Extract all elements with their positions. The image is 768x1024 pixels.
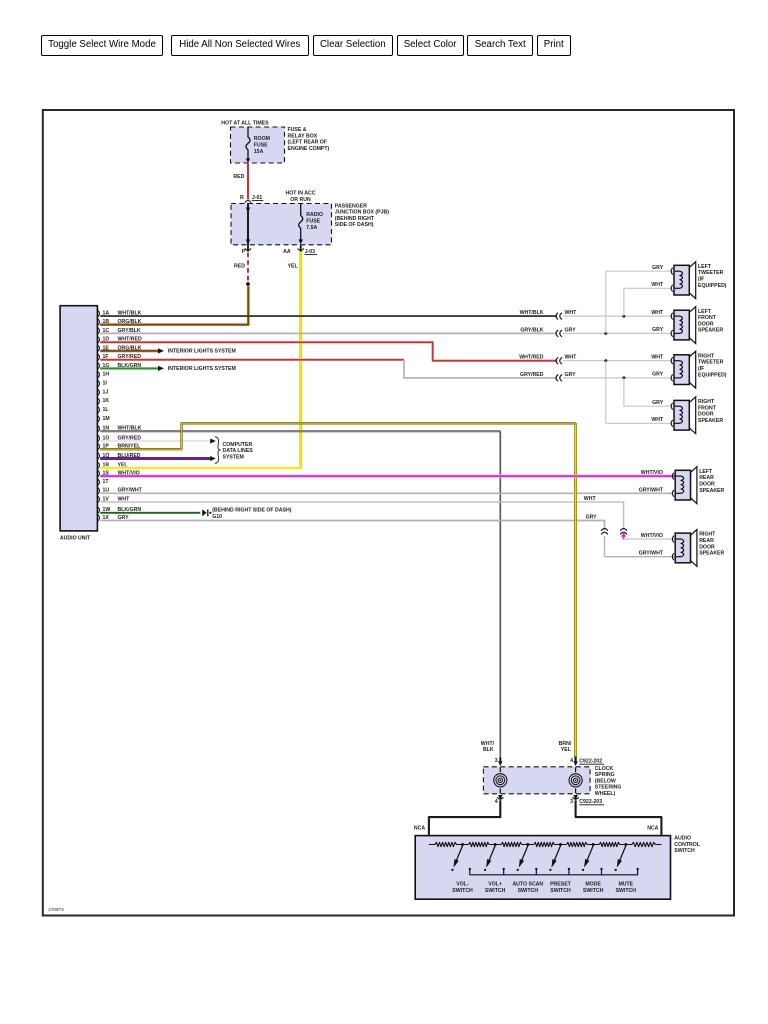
toolbar button Print xyxy=(537,35,572,56)
node GRY right xyxy=(622,376,625,379)
svg-text:SWITCH: SWITCH xyxy=(616,888,637,894)
svg-text:GRY: GRY xyxy=(652,265,664,271)
svg-text:DOOR: DOOR xyxy=(698,412,714,418)
svg-text:RIGHT: RIGHT xyxy=(699,532,716,538)
wire 1R YEL to AA vertical xyxy=(100,466,301,469)
svg-text:FUSE: FUSE xyxy=(254,143,268,149)
svg-text:(LEFT REAR OF: (LEFT REAR OF xyxy=(288,140,327,146)
connector arc at pin P xyxy=(245,248,251,250)
wire 1V WHT to connector xyxy=(100,502,623,530)
svg-text:CLOCK: CLOCK xyxy=(595,766,614,772)
svg-text:NCA: NCA xyxy=(647,825,658,831)
arrow WHT/VIO into connector xyxy=(623,536,625,540)
wire 1E ORG/BLK to interior lights xyxy=(100,349,158,352)
svg-text:HOT AT ALL TIMES: HOT AT ALL TIMES xyxy=(221,121,269,127)
svg-text:DOOR: DOOR xyxy=(699,544,715,550)
svg-text:1M: 1M xyxy=(103,416,110,422)
svg-text:SPEAKER: SPEAKER xyxy=(698,328,723,334)
node GRY left xyxy=(604,332,607,335)
svg-text:STEERING: STEERING xyxy=(595,785,622,791)
svg-text:AUTO SCAN: AUTO SCAN xyxy=(512,881,543,887)
svg-text:WHT: WHT xyxy=(651,355,664,361)
fuse & relay box (dashed) xyxy=(231,127,285,163)
svg-text:YEL: YEL xyxy=(561,747,572,753)
svg-text:SPEAKER: SPEAKER xyxy=(699,488,724,494)
svg-text:R: R xyxy=(240,195,244,201)
wire 1Q BLU/RED to computer data lines xyxy=(100,457,210,460)
svg-text:WHT: WHT xyxy=(651,417,664,423)
svg-text:AUDIO UNIT: AUDIO UNIT xyxy=(60,536,91,542)
svg-text:SWITCH: SWITCH xyxy=(518,888,539,894)
svg-text:ORG/BLK: ORG/BLK xyxy=(118,319,142,325)
wire 1A WHT/BLK to connector xyxy=(100,315,557,317)
junction node red/orange xyxy=(246,282,250,286)
svg-text:WHT/VIO: WHT/VIO xyxy=(641,470,663,476)
svg-text:(IF: (IF xyxy=(698,277,704,283)
svg-text:TWEETER: TWEETER xyxy=(698,270,724,276)
svg-text:ROOM: ROOM xyxy=(254,136,270,142)
svg-text:GRY/RED: GRY/RED xyxy=(520,372,544,378)
svg-text:NCA: NCA xyxy=(414,825,425,831)
switch blades and contacts xyxy=(456,846,463,863)
svg-text:SWITCH: SWITCH xyxy=(674,848,695,854)
svg-text:(IF: (IF xyxy=(698,366,704,372)
svg-text:LEFT: LEFT xyxy=(699,469,713,475)
svg-text:INTERIOR LIGHTS SYSTEM: INTERIOR LIGHTS SYSTEM xyxy=(168,366,236,372)
svg-text:WHEEL): WHEEL) xyxy=(595,791,616,797)
svg-text:PRESET: PRESET xyxy=(550,881,572,887)
connector on 1F wire xyxy=(556,375,558,382)
wire WHT down to right front door speaker xyxy=(606,361,672,424)
svg-text:WHT: WHT xyxy=(584,496,597,502)
arrow into clock spring pin 3 xyxy=(499,758,501,762)
svg-text:4: 4 xyxy=(570,758,573,764)
svg-text:MODE: MODE xyxy=(585,881,601,887)
wire 1C GRY/BLK to connector xyxy=(100,332,557,334)
svg-text:C922-203: C922-203 xyxy=(579,799,602,805)
svg-text:3: 3 xyxy=(570,799,573,805)
svg-text:VOL+: VOL+ xyxy=(488,881,502,887)
speaker right tweeter xyxy=(689,351,695,388)
svg-text:SWITCH: SWITCH xyxy=(485,888,506,894)
svg-text:SYSTEM: SYSTEM xyxy=(223,455,244,461)
resistor chain xyxy=(429,842,463,846)
svg-text:G10: G10 xyxy=(212,514,222,520)
audio unit box xyxy=(60,306,97,531)
svg-text:REAR: REAR xyxy=(699,538,714,544)
svg-text:4: 4 xyxy=(495,799,498,805)
connector on 1C wire xyxy=(556,330,558,337)
wire 1U GRY/WHT to left rear door speaker xyxy=(100,492,672,494)
audio unit pins 1A-1X xyxy=(98,310,100,316)
wire 1S WHT/VIO over yellow xyxy=(570,475,582,478)
speaker left tweeter xyxy=(689,262,695,299)
arrow into clock spring pin 4 xyxy=(574,757,576,762)
svg-text:GRY/BLK: GRY/BLK xyxy=(520,327,543,333)
svg-text:VOL-: VOL- xyxy=(456,881,469,887)
connector GRY to GRY/WHT xyxy=(601,529,608,531)
wire GRY up to left tweeter xyxy=(606,271,672,333)
svg-text:MUTE: MUTE xyxy=(618,881,633,887)
ground G10 xyxy=(202,509,206,516)
wire 1O GRY/RED to computer data lines xyxy=(100,440,210,442)
brace computer data lines system xyxy=(215,437,221,464)
svg-text:LEFT: LEFT xyxy=(698,264,712,270)
toolbar button Hide All Non Selected Wires xyxy=(171,35,309,56)
wire RED dashed PJB to junction xyxy=(247,245,249,252)
fuse F ROOM FUSE 15A xyxy=(246,128,250,160)
svg-text:WHT/RED: WHT/RED xyxy=(519,355,543,361)
speaker left rear door xyxy=(691,467,697,504)
svg-text:SIDE OF DASH): SIDE OF DASH) xyxy=(335,222,374,228)
wire GRY down to right front door speaker xyxy=(624,378,672,406)
wire ORG/BLK junction to pin 1B xyxy=(100,286,248,325)
svg-text:WHT/VIO: WHT/VIO xyxy=(641,533,663,539)
wire pin R to pin P inside PJB xyxy=(247,204,249,245)
svg-text:RELAY BOX: RELAY BOX xyxy=(288,133,318,139)
wire GRY to left front door speaker xyxy=(563,332,672,334)
wire WHT up to left tweeter xyxy=(624,288,672,316)
connector arc clock spring pin 4 bottom xyxy=(497,797,503,799)
svg-text:1H: 1H xyxy=(103,372,110,378)
node WHT left xyxy=(622,315,625,318)
arrow out clock spring pin 3 xyxy=(573,795,577,800)
arrow out clock spring pin 4 xyxy=(498,795,502,800)
svg-text:DATA LINES: DATA LINES xyxy=(223,448,254,454)
connector arc clock spring pin 3 bottom xyxy=(573,797,579,799)
svg-text:GRY: GRY xyxy=(565,327,577,333)
svg-text:SPRING: SPRING xyxy=(595,772,615,778)
svg-text:LEFT: LEFT xyxy=(698,309,712,315)
svg-text:1B: 1B xyxy=(103,319,110,325)
wire RED J-01 to PJB xyxy=(247,202,249,205)
svg-text:AA: AA xyxy=(283,249,291,255)
svg-text:1I: 1I xyxy=(103,381,108,387)
wire 1W BLK/GRN to ground xyxy=(100,512,200,514)
svg-text:ENGINE COMPT): ENGINE COMPT) xyxy=(288,146,330,152)
wire BRN/YEL down to clock spring xyxy=(574,423,577,757)
passenger junction box (dashed) xyxy=(231,204,332,245)
svg-text:TWEETER: TWEETER xyxy=(698,360,724,366)
connector on 1A wire xyxy=(556,313,558,320)
svg-text:SWITCH: SWITCH xyxy=(452,888,473,894)
svg-text:EQUIPPED): EQUIPPED) xyxy=(698,372,727,378)
svg-text:1L: 1L xyxy=(103,407,110,413)
svg-text:GRY: GRY xyxy=(652,327,664,333)
svg-text:REAR: REAR xyxy=(699,475,714,481)
svg-text:HOT IN ACC: HOT IN ACC xyxy=(285,191,315,197)
svg-text:270973: 270973 xyxy=(48,907,64,912)
speaker right rear door xyxy=(691,530,697,567)
speaker right front door xyxy=(689,397,695,434)
connector on 1D wire xyxy=(556,357,558,364)
connector WHT to WHT/VIO xyxy=(620,529,627,531)
clock spring coil left xyxy=(498,778,502,782)
diagram outer border xyxy=(43,110,734,916)
svg-text:RED: RED xyxy=(234,263,245,269)
svg-text:BLK: BLK xyxy=(483,747,494,753)
wire 1F GRY/RED to jog xyxy=(100,358,404,361)
svg-text:RIGHT: RIGHT xyxy=(698,353,715,359)
clock spring box (dashed) xyxy=(483,767,590,794)
wire WHT/VIO to right rear door speaker xyxy=(624,538,676,540)
wire 1S WHT/VIO to left rear door speaker xyxy=(100,475,675,478)
switch contact bus xyxy=(470,870,638,875)
svg-text:JUNCTION BOX (PJB): JUNCTION BOX (PJB) xyxy=(335,210,389,216)
svg-text:1J: 1J xyxy=(103,389,109,395)
svg-text:WHT/: WHT/ xyxy=(481,741,495,747)
wire WHT to left front door speaker xyxy=(563,315,672,317)
svg-text:PASSENGER: PASSENGER xyxy=(335,203,367,209)
fuse RADIO FUSE 7.5A xyxy=(299,204,303,241)
svg-text:WHT: WHT xyxy=(651,310,664,316)
audio control switch box xyxy=(415,836,670,900)
clock spring coil right xyxy=(573,778,577,782)
svg-text:(BELOW: (BELOW xyxy=(595,778,616,784)
svg-text:1T: 1T xyxy=(103,479,110,485)
svg-text:GRY: GRY xyxy=(586,515,598,521)
wire 1X GRY to connector xyxy=(100,521,604,530)
svg-text:DOOR: DOOR xyxy=(699,482,715,488)
svg-text:RED: RED xyxy=(233,174,244,180)
svg-text:OR RUN: OR RUN xyxy=(290,197,311,203)
svg-text:GRY: GRY xyxy=(565,372,577,378)
svg-text:INTERIOR LIGHTS SYSTEM: INTERIOR LIGHTS SYSTEM xyxy=(168,349,236,355)
svg-text:RADIO: RADIO xyxy=(306,212,323,218)
toolbar button Clear Selection xyxy=(313,35,393,56)
wire BRN/YEL vertical over gray rows xyxy=(574,470,577,757)
svg-text:YEL: YEL xyxy=(288,263,299,269)
wire WHT to right tweeter xyxy=(563,360,672,362)
wire 1G BLK/GRN to interior lights xyxy=(100,367,158,370)
svg-text:WHT: WHT xyxy=(565,355,578,361)
svg-text:FUSE &: FUSE & xyxy=(288,127,307,133)
svg-text:(BEHIND RIGHT: (BEHIND RIGHT xyxy=(335,216,375,222)
svg-text:15A: 15A xyxy=(254,149,264,155)
wire 1P BRN/YEL elbow up and right xyxy=(100,423,575,449)
svg-text:AUDIO: AUDIO xyxy=(674,836,691,842)
toolbar button Select Color xyxy=(397,35,464,56)
node WHT right xyxy=(604,359,607,362)
svg-text:P: P xyxy=(242,249,246,255)
wire clock spring pin 4 to audio control switch xyxy=(429,800,500,845)
svg-text:WHT: WHT xyxy=(651,282,664,288)
svg-text:CONTROL: CONTROL xyxy=(674,842,700,848)
svg-text:DOOR: DOOR xyxy=(698,321,714,327)
wire YEL AA down to pin 1R xyxy=(300,245,302,252)
wire GRY to right tweeter xyxy=(563,377,672,379)
svg-text:SWITCH: SWITCH xyxy=(550,888,571,894)
svg-text:RIGHT: RIGHT xyxy=(698,399,715,405)
wire clock spring pin 3 to audio control switch xyxy=(576,800,662,845)
svg-text:GRY/WHT: GRY/WHT xyxy=(639,551,664,557)
svg-text:GRY: GRY xyxy=(652,372,664,378)
svg-text:C922-202: C922-202 xyxy=(579,759,602,765)
svg-text:SPEAKER: SPEAKER xyxy=(699,551,724,557)
svg-text:FRONT: FRONT xyxy=(698,405,717,411)
svg-text:EQUIPPED): EQUIPPED) xyxy=(698,283,727,289)
wire GRY/WHT to right rear door speaker xyxy=(605,536,676,557)
wire 1N WHT/BLK to clock spring xyxy=(100,430,500,432)
svg-text:GRY/WHT: GRY/WHT xyxy=(639,487,664,493)
svg-text:1K: 1K xyxy=(103,398,110,404)
svg-text:WHT/BLK: WHT/BLK xyxy=(520,310,544,316)
svg-text:FUSE: FUSE xyxy=(306,218,320,224)
toolbar button Toggle Select Wire Mode xyxy=(41,35,163,56)
svg-text:7.5A: 7.5A xyxy=(306,225,317,231)
svg-text:WHT: WHT xyxy=(565,310,578,316)
svg-text:SWITCH: SWITCH xyxy=(583,888,604,894)
svg-text:COMPUTER: COMPUTER xyxy=(223,442,253,448)
wire GRY/RED gray segment to connector xyxy=(404,360,557,378)
connector J-01 xyxy=(245,201,251,203)
svg-text:BRN/: BRN/ xyxy=(559,741,572,747)
wire RED fuse box to J-01 xyxy=(247,163,249,200)
svg-text:3: 3 xyxy=(495,758,498,764)
speaker left front door xyxy=(689,307,695,344)
wire 1D WHT/RED to connector xyxy=(100,342,557,360)
svg-text:FRONT: FRONT xyxy=(698,315,717,321)
toolbar button Search Text xyxy=(467,35,533,56)
svg-text:GRY: GRY xyxy=(652,400,664,406)
svg-text:SPEAKER: SPEAKER xyxy=(698,418,723,424)
connector arc at pin AA xyxy=(298,248,304,250)
svg-text:(BEHIND RIGHT SIDE OF DASH): (BEHIND RIGHT SIDE OF DASH) xyxy=(212,507,292,513)
junction dots on bus xyxy=(461,843,464,846)
